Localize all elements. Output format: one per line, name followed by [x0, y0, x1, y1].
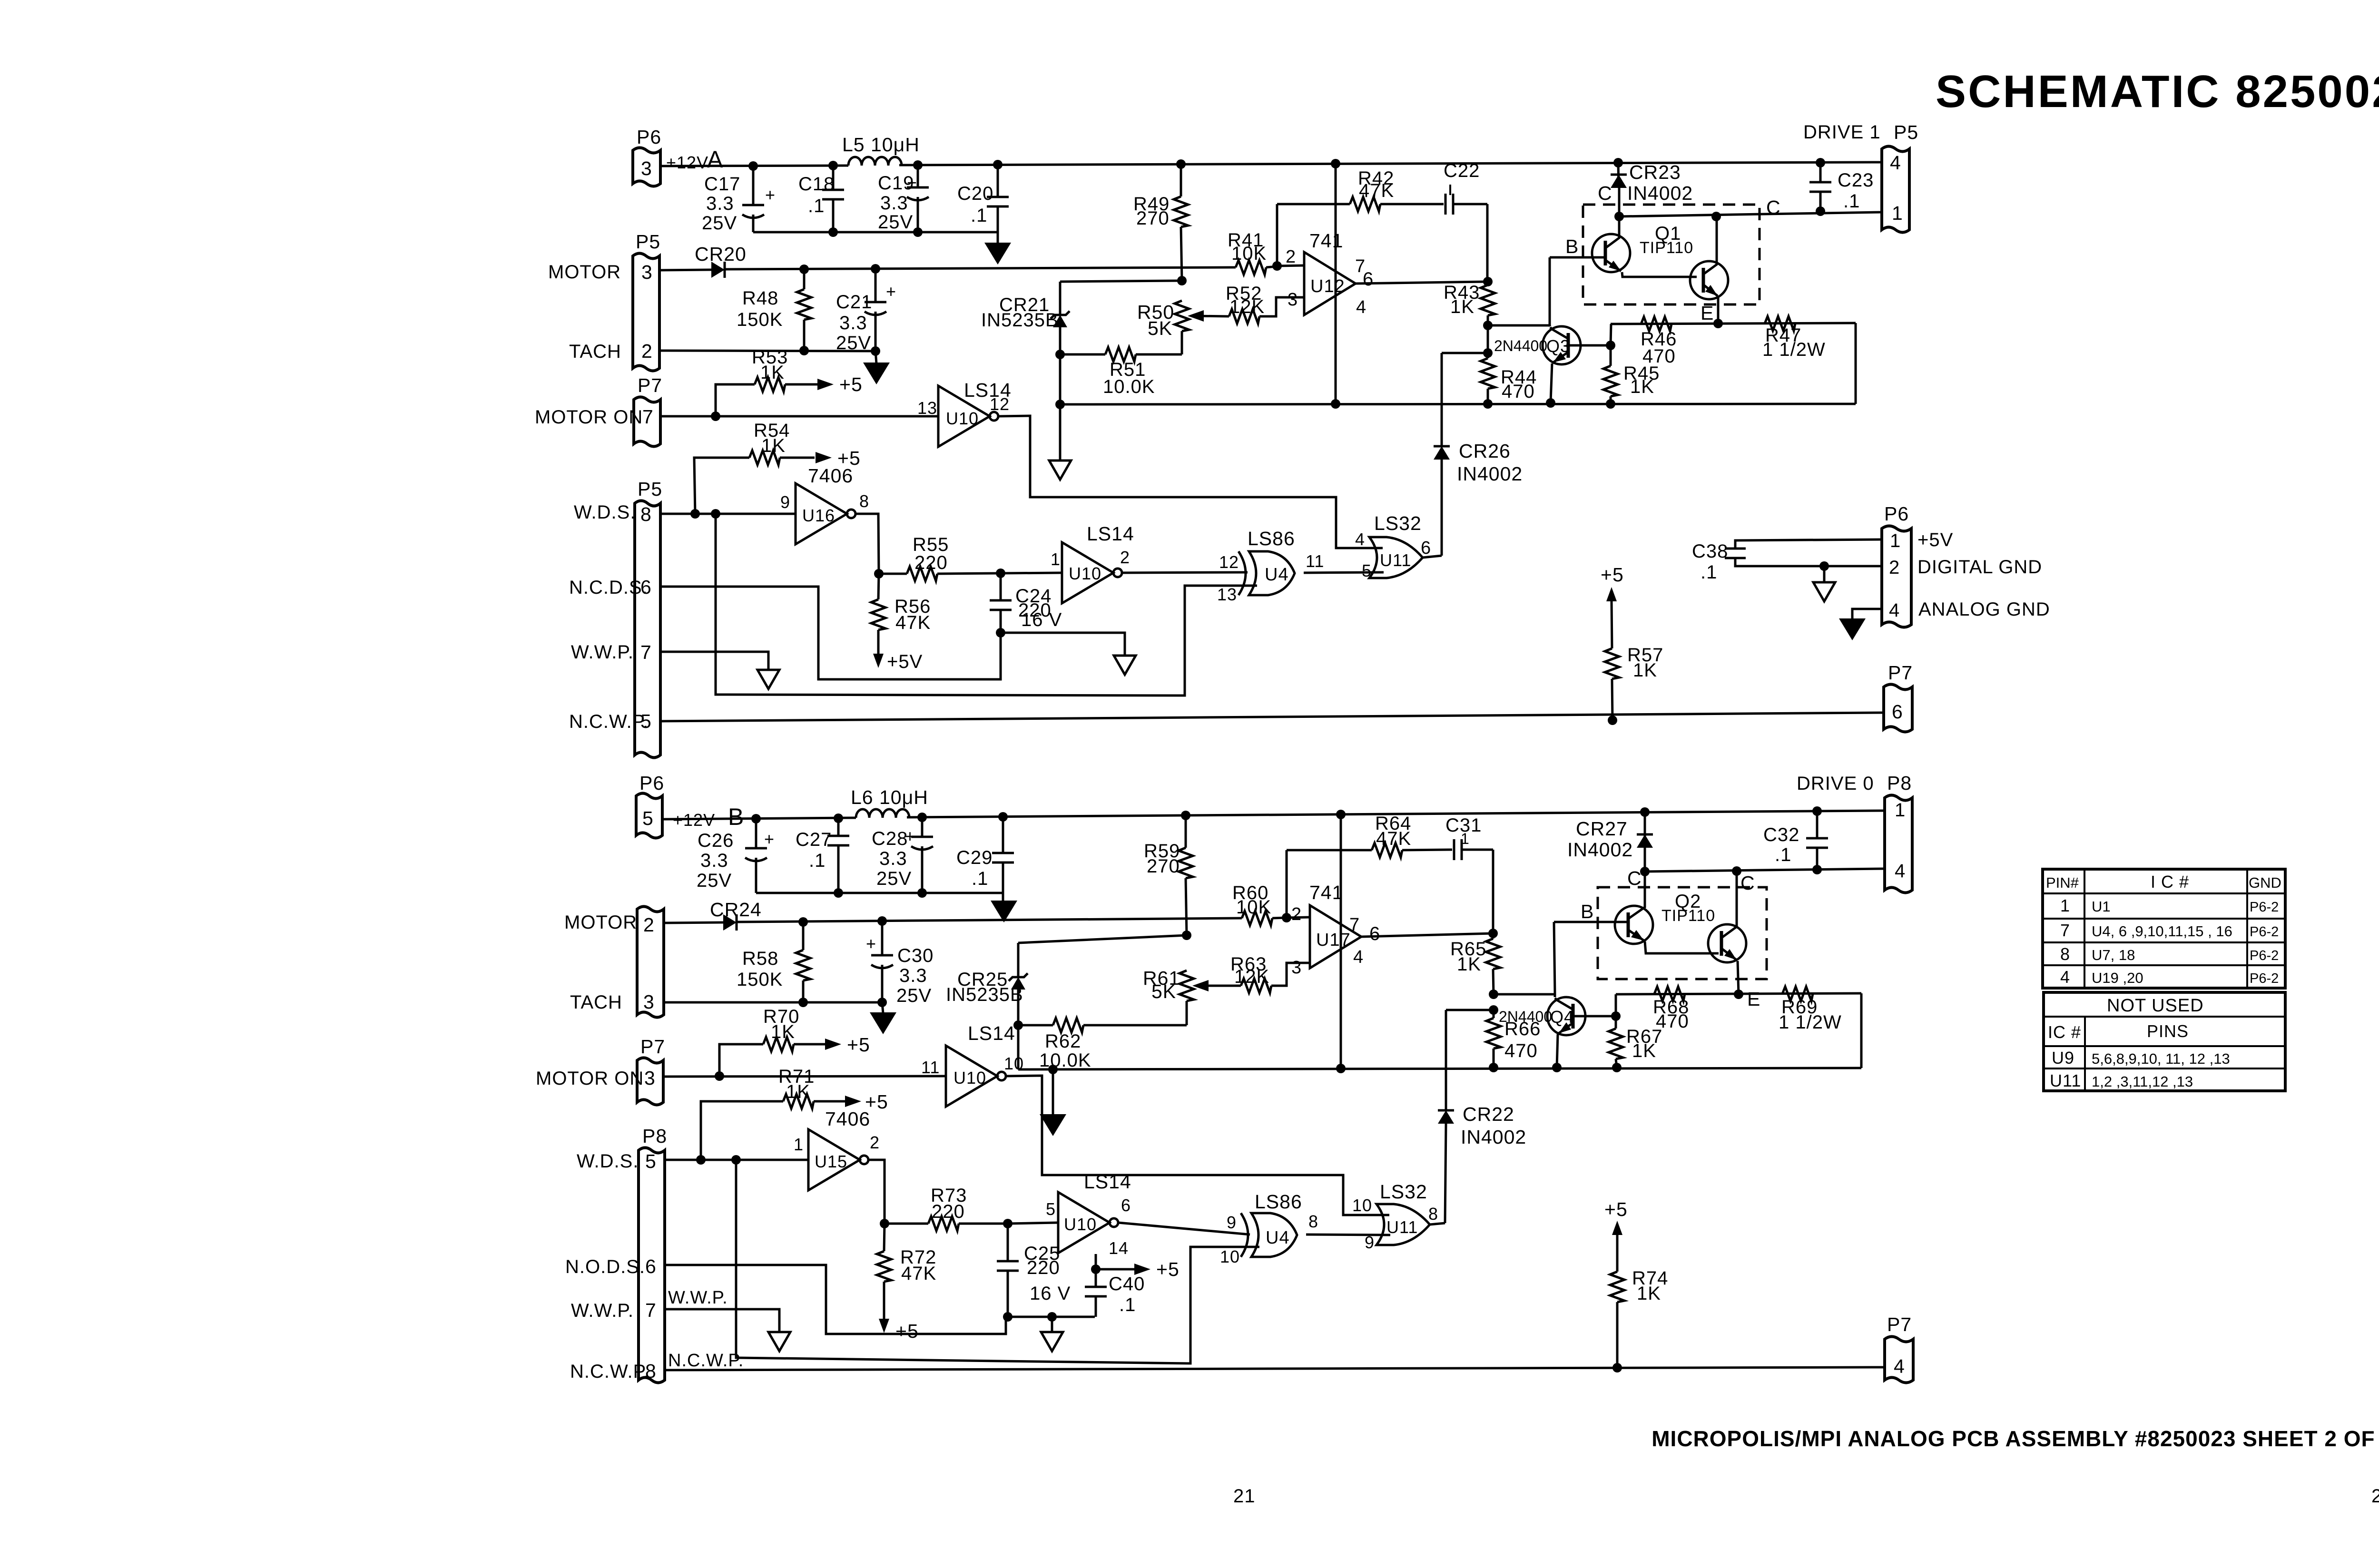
svg-text:U9: U9	[2052, 1048, 2074, 1068]
svg-text:P6: P6	[639, 772, 664, 794]
svg-text:P6-2: P6-2	[2250, 900, 2279, 915]
svg-text:47K: 47K	[895, 612, 931, 633]
svg-text:CR26: CR26	[1459, 440, 1511, 462]
svg-text:2N4400: 2N4400	[1499, 1008, 1552, 1025]
wire U11-6 output	[1423, 556, 1442, 558]
svg-text:N.O.D.S.: N.O.D.S.	[565, 1256, 645, 1277]
svg-text:C22: C22	[1444, 160, 1480, 181]
inverter U10 (LS14) pins 11-10	[921, 1022, 1024, 1107]
capacitor C23 .1	[1809, 163, 1874, 212]
capacitor C18 .1	[798, 166, 844, 232]
svg-text:3: 3	[1288, 290, 1298, 310]
svg-text:U19 ,20: U19 ,20	[2092, 970, 2143, 986]
ground (analog) below C21/TACH	[863, 351, 890, 384]
svg-text:1K: 1K	[1632, 1040, 1656, 1061]
transistor Q2b (TIP110 output)	[1708, 871, 1746, 994]
svg-text:NOT USED: NOT USED	[2107, 996, 2204, 1016]
svg-text:P6-2: P6-2	[2250, 924, 2279, 940]
wire R47 loop	[1855, 323, 1857, 404]
ground below W.W.P. (B)	[768, 1332, 790, 1351]
svg-text:5: 5	[1046, 1199, 1056, 1219]
svg-text:.1: .1	[808, 196, 825, 216]
svg-text:TACH: TACH	[570, 992, 622, 1013]
resistor R59 270	[1144, 815, 1193, 940]
svg-text:P7: P7	[640, 1036, 665, 1058]
resistor R56 47K to +5V	[871, 574, 931, 672]
ground below P6-2 (digital)	[1813, 561, 1835, 601]
svg-text:MOTOR: MOTOR	[564, 912, 637, 933]
ground below C24 row	[1114, 656, 1136, 675]
resistor R67 1K	[1609, 1016, 1662, 1072]
svg-text:7: 7	[640, 641, 652, 663]
svg-text:1K: 1K	[786, 1081, 810, 1102]
resistor R71 1K to +5	[701, 1066, 888, 1160]
zener CR21 1N5235B	[981, 282, 1070, 404]
svg-text:CR27: CR27	[1576, 818, 1628, 840]
wire U17 pin7/pin4 vertical	[1340, 814, 1342, 1068]
svg-text:3: 3	[1291, 958, 1302, 978]
svg-text:9: 9	[1227, 1213, 1237, 1232]
svg-text:L5 10μH: L5 10μH	[842, 134, 920, 156]
title SCHEMATIC 8250022	[1936, 66, 2379, 117]
svg-text:LS32: LS32	[1380, 1181, 1427, 1203]
svg-text:W.W.P.: W.W.P.	[571, 1300, 634, 1321]
wire MOTOR (A)	[659, 264, 1236, 274]
svg-text:PINS: PINS	[2147, 1021, 2189, 1041]
wire R68 left drop	[1615, 994, 1617, 1016]
svg-text:P6: P6	[1884, 503, 1909, 525]
wire MOTOR (B)	[664, 916, 1242, 927]
svg-text:U1: U1	[2092, 898, 2111, 915]
svg-text:1: 1	[1895, 800, 1906, 821]
wire R43 node to B riser	[1488, 257, 1550, 325]
resistor R58 150K	[737, 922, 810, 1007]
wire B to Q2 base	[1554, 921, 1624, 923]
svg-text:10.0K: 10.0K	[1103, 376, 1155, 397]
svg-text:TACH: TACH	[569, 341, 621, 362]
transistor Q3 2N4400	[1494, 325, 1615, 408]
svg-text:IN5235B: IN5235B	[946, 984, 1023, 1005]
wire R46 left drop	[1611, 324, 1611, 345]
svg-text:7: 7	[1349, 915, 1360, 935]
table pin/ic/gnd	[2043, 869, 2285, 988]
svg-text:U15: U15	[815, 1152, 847, 1171]
svg-text:.1: .1	[1701, 562, 1717, 583]
svg-text:IN4002: IN4002	[1461, 1126, 1526, 1148]
dashed outline Q2 package	[1598, 887, 1767, 979]
svg-text:MOTOR: MOTOR	[548, 262, 621, 283]
svg-text:W.W.P.: W.W.P.	[668, 1288, 728, 1308]
svg-text:470: 470	[1642, 346, 1676, 367]
inverter U10 (LS14) pins 5-6	[1046, 1171, 1131, 1258]
resistor R53 1K to +5	[716, 347, 863, 416]
resistor R73 220	[885, 1185, 1058, 1231]
svg-text:220: 220	[1027, 1257, 1060, 1278]
resistor R52 12K	[1226, 283, 1304, 323]
svg-text:P5: P5	[636, 231, 660, 253]
svg-text:N.C.W.P.: N.C.W.P.	[570, 1361, 649, 1382]
svg-text:+: +	[765, 185, 776, 205]
capacitor C28 3.3 25V	[872, 817, 933, 893]
svg-text:P6-2: P6-2	[2250, 948, 2279, 963]
resistor R45 1K	[1603, 345, 1660, 409]
svg-text:1K: 1K	[1637, 1283, 1661, 1304]
connector P5 pins 3,2 (MOTOR/TACH)	[548, 231, 660, 371]
svg-text:5,6,8,9,10, 11, 12 ,13: 5,6,8,9,10, 11, 12 ,13	[2092, 1050, 2230, 1067]
diode CR23 1N4002	[1611, 161, 1693, 216]
diode CR24	[710, 899, 762, 931]
wire CR21 top row	[1060, 281, 1182, 282]
svg-text:8: 8	[859, 491, 869, 511]
resistor R74 1K to +5	[1604, 1198, 1668, 1372]
node C label left (bottom)	[1627, 867, 1642, 889]
svg-text:47K: 47K	[1376, 828, 1411, 849]
wire W.D.S. (A)	[660, 509, 796, 519]
resistor R63 12K	[1230, 954, 1310, 993]
table not used	[2044, 992, 2285, 1091]
capacitor C25 220 16V	[997, 1224, 1071, 1322]
svg-text:4: 4	[1889, 600, 1900, 621]
svg-text:U11: U11	[2050, 1071, 2081, 1090]
svg-text:47K: 47K	[1359, 180, 1394, 201]
svg-text:10: 10	[1220, 1247, 1240, 1266]
capacitor C29 .1	[956, 817, 1014, 893]
svg-text:1,2 ,3,11,12 ,13: 1,2 ,3,11,12 ,13	[2092, 1073, 2193, 1090]
svg-text:B: B	[728, 804, 744, 830]
ground below C30/TACH	[870, 1002, 896, 1034]
svg-text:C26: C26	[698, 830, 734, 851]
svg-text:C28: C28	[872, 828, 908, 849]
diode CR27 1N4002	[1567, 812, 1653, 872]
ground (analog) below C20	[984, 232, 1011, 265]
svg-text:+5: +5	[847, 1034, 870, 1056]
connector P7 pin 7 (MOTOR ON)	[535, 374, 662, 447]
svg-text:7: 7	[2060, 921, 2070, 940]
resistor R66 470	[1486, 1010, 1541, 1072]
or gate U11 (LS32) pins 10,9-8	[1352, 1181, 1438, 1252]
zener CR25 1N5235B	[946, 943, 1028, 1069]
svg-text:12K: 12K	[1234, 966, 1269, 987]
svg-text:U12: U12	[1310, 276, 1345, 296]
wire R50 wiper to R52	[1193, 316, 1229, 316]
resistor R62 10.0K	[1018, 1018, 1187, 1071]
svg-text:3.3: 3.3	[706, 193, 734, 214]
svg-text:C17: C17	[704, 174, 740, 195]
inverter U15 (7406) pins 1-2	[794, 1108, 880, 1190]
transistor Q2a (TIP110 input)	[1615, 872, 1719, 953]
ground below CR21	[1049, 400, 1071, 480]
node B label	[1565, 235, 1579, 257]
svg-text:+5: +5	[1156, 1258, 1180, 1280]
svg-text:Q3: Q3	[1546, 336, 1570, 356]
svg-text:3.3: 3.3	[839, 313, 867, 333]
ground below W.W.P.	[757, 670, 779, 689]
xor gate U4 (LS86) pins 9,10-8	[1220, 1191, 1318, 1266]
footer text	[1652, 1426, 2379, 1451]
svg-text:ANALOG GND: ANALOG GND	[1918, 599, 2050, 620]
wire U10-10 to U11 pin 10	[1006, 1076, 1389, 1215]
svg-text:47K: 47K	[901, 1263, 936, 1284]
svg-text:3.3: 3.3	[700, 850, 728, 871]
wire TACH (A)	[659, 351, 875, 351]
wire C node row (bottom)	[1640, 865, 1885, 876]
node rail B junctions	[751, 806, 1822, 823]
page number left	[1233, 1486, 1256, 1507]
svg-text:+12V: +12V	[666, 153, 708, 172]
svg-text:14: 14	[1109, 1238, 1129, 1258]
potentiometer R50 5K	[1137, 301, 1204, 354]
svg-text:25V: 25V	[702, 213, 737, 234]
svg-text:P5: P5	[1894, 121, 1918, 143]
svg-text:C21: C21	[836, 292, 872, 313]
svg-text:P7: P7	[1887, 1313, 1912, 1335]
svg-text:+5: +5	[895, 1320, 919, 1342]
inverter U10 (LS14) pins 1-2	[1051, 523, 1134, 603]
svg-text:B: B	[1581, 901, 1594, 922]
svg-text:2: 2	[1291, 904, 1302, 924]
capacitor C32 .1	[1763, 811, 1828, 870]
svg-text:5: 5	[1362, 561, 1372, 580]
resistor R69 1 1/2W	[1779, 987, 1842, 1033]
svg-text:1: 1	[1051, 549, 1061, 569]
wire R65 node to B riser	[1494, 922, 1555, 994]
svg-text:P5: P5	[638, 478, 662, 500]
svg-text:TIP110: TIP110	[1640, 239, 1693, 257]
capacitor C20 .1	[957, 165, 1009, 232]
wire C node row	[1614, 206, 1882, 221]
svg-text:3: 3	[644, 1067, 656, 1089]
svg-text:1 1/2W: 1 1/2W	[1762, 339, 1826, 360]
wire U11-8 output	[1430, 1223, 1445, 1225]
wire U15 out to R73 node	[868, 1160, 889, 1228]
svg-text:W.W.P.: W.W.P.	[571, 642, 634, 663]
wire N.O.D.S. (B)	[665, 1265, 1006, 1334]
svg-text:25V: 25V	[896, 985, 932, 1006]
resistor R54 1K to +5	[694, 420, 861, 514]
svg-text:P8: P8	[1887, 772, 1912, 794]
dashed outline Q1 package	[1583, 205, 1760, 304]
svg-text:3: 3	[643, 991, 655, 1013]
wire U10-2 to U4-12	[1122, 572, 1248, 573]
svg-text:11: 11	[921, 1058, 940, 1077]
label Q2 TIP110	[1661, 891, 1715, 925]
capacitor C17 3.3 25V	[702, 166, 776, 234]
op-amp U12 (741)	[1286, 230, 1374, 317]
svg-text:13: 13	[917, 398, 937, 418]
svg-text:+5V: +5V	[887, 651, 923, 672]
svg-text:.1: .1	[1119, 1294, 1136, 1315]
svg-text:1K: 1K	[1450, 296, 1475, 317]
diode CR26 1N4002	[1434, 353, 1523, 556]
page number right	[2371, 1486, 2379, 1507]
svg-text:LS14: LS14	[968, 1022, 1015, 1044]
svg-text:IC #: IC #	[2048, 1022, 2081, 1042]
svg-text:U10: U10	[1064, 1215, 1097, 1234]
svg-text:5: 5	[642, 807, 654, 829]
svg-text:3.3: 3.3	[879, 848, 907, 869]
svg-text:+5: +5	[1604, 1198, 1628, 1220]
wire N.C.W.P. (B) to P7-4	[665, 1351, 1885, 1371]
svg-text:2: 2	[870, 1133, 880, 1152]
svg-text:270: 270	[1136, 208, 1170, 229]
wire W.W.P. (B) to ground	[665, 1288, 779, 1332]
svg-text:1K: 1K	[760, 362, 785, 383]
resistor R48 150K	[737, 269, 811, 355]
svg-text:LS14: LS14	[1087, 523, 1134, 545]
svg-text:.1: .1	[809, 850, 826, 871]
wire U10 pin14 to C40/+5	[1091, 1254, 1180, 1280]
svg-text:A: A	[707, 146, 723, 173]
svg-text:CR20: CR20	[695, 243, 747, 265]
svg-text:3.3: 3.3	[899, 965, 927, 986]
wire P6-4 to analog ground	[1839, 609, 1882, 640]
svg-text:8: 8	[640, 503, 652, 525]
potentiometer R61 5K	[1143, 967, 1209, 1025]
svg-text:C30: C30	[897, 945, 934, 966]
svg-text:6: 6	[1369, 923, 1380, 944]
resistor R70 1K to +5	[719, 1006, 870, 1076]
svg-text:PIN#: PIN#	[2046, 874, 2079, 891]
wire cap bank bus (top)	[753, 227, 998, 237]
svg-text:470: 470	[1504, 1040, 1538, 1061]
connector P8 pins 2,3 (MOTOR/TACH)	[564, 907, 664, 1018]
svg-text:150K: 150K	[737, 309, 783, 330]
svg-text:150K: 150K	[737, 969, 783, 990]
connector P7 pin 4 (bottom)	[1885, 1313, 1913, 1383]
svg-text:P6: P6	[637, 126, 661, 148]
svg-text:4: 4	[2060, 967, 2070, 987]
inductor L5 10uH	[842, 134, 920, 166]
connector P7 pin 3 (MOTOR ON)	[536, 1036, 665, 1105]
svg-text:P7: P7	[1888, 662, 1913, 684]
node E label (bottom)	[1747, 988, 1760, 1010]
svg-text:8: 8	[1428, 1204, 1438, 1224]
wire +12V B rail	[662, 811, 1885, 819]
capacitor C30 3.3 25V	[866, 921, 934, 1007]
svg-text:C27: C27	[796, 829, 832, 850]
svg-text:IN5235B: IN5235B	[981, 310, 1059, 331]
svg-text:IN4002: IN4002	[1457, 463, 1523, 485]
svg-text:C40: C40	[1109, 1274, 1145, 1294]
svg-text:GND: GND	[2249, 874, 2281, 891]
svg-text:C23: C23	[1838, 170, 1874, 191]
svg-text:1: 1	[1890, 530, 1901, 551]
svg-text:TIP110: TIP110	[1661, 907, 1715, 925]
resistor R41 10K	[1228, 230, 1304, 274]
svg-text:4: 4	[1895, 861, 1906, 882]
svg-text:N.C.W.P.: N.C.W.P.	[569, 711, 649, 732]
svg-text:1: 1	[794, 1135, 804, 1154]
svg-text:25V: 25V	[878, 212, 913, 233]
svg-text:3.3: 3.3	[880, 193, 908, 214]
xor gate U4 (LS86) pins 12,13-11	[1217, 528, 1324, 604]
svg-text:C: C	[1627, 867, 1642, 889]
connector P6 pin 3 (+12V A)	[633, 126, 723, 186]
wire CR22 to R65/R66 node	[1446, 1005, 1498, 1015]
svg-text:CR22: CR22	[1463, 1103, 1514, 1125]
svg-text:16 V: 16 V	[1030, 1283, 1071, 1304]
svg-text:C18: C18	[798, 174, 835, 195]
svg-text:2: 2	[1889, 557, 1900, 578]
wire B to Q1 base	[1550, 256, 1602, 259]
svg-text:.1: .1	[972, 868, 988, 889]
svg-text:U10: U10	[1069, 564, 1101, 583]
svg-text:U16: U16	[802, 506, 835, 525]
label Q1 TIP110	[1640, 223, 1693, 257]
wire U10-6 to U4-9	[1118, 1223, 1250, 1235]
transistor Q1a (TIP110 input)	[1592, 216, 1697, 277]
wire E row (R68/R69)	[1616, 990, 1861, 999]
svg-text:6: 6	[1121, 1196, 1131, 1215]
svg-text:1K: 1K	[1633, 660, 1657, 681]
diode CR22 1N4002	[1438, 1010, 1526, 1223]
wire R69 loop	[1860, 993, 1863, 1068]
svg-text:DRIVE 0: DRIVE 0	[1797, 773, 1874, 794]
ground below C29	[991, 893, 1017, 922]
wire U17 feedback to R64	[1286, 850, 1288, 918]
svg-text:N.C.D.S.: N.C.D.S.	[569, 577, 648, 598]
resistor R72 47K to +5	[877, 1224, 936, 1342]
svg-text:3: 3	[641, 157, 652, 179]
connector P5 pins 4,1 (DRIVE 1)	[1803, 121, 1918, 233]
wire bottom rail (B)	[1018, 1064, 1861, 1073]
svg-text:LS32: LS32	[1374, 512, 1422, 534]
node C label right (bottom)	[1740, 872, 1755, 894]
wire U16 out to R55 node	[855, 514, 884, 578]
svg-text:1: 1	[2060, 896, 2070, 915]
svg-text:+5V: +5V	[1917, 529, 1953, 550]
node C label right	[1766, 196, 1781, 218]
svg-text:W.D.S.: W.D.S.	[577, 1151, 639, 1172]
wire C25 bottom row to C40	[1008, 1312, 1095, 1322]
connector P6 pin 5 (+12V B)	[636, 772, 744, 838]
node E label	[1701, 302, 1714, 324]
wire W.W.P. (A) to ground	[660, 652, 768, 670]
wire U12 pin7/pin4 vertical	[1335, 164, 1337, 404]
svg-text:P6-2: P6-2	[2250, 971, 2279, 986]
svg-text:MOTOR ON: MOTOR ON	[535, 407, 643, 428]
capacitor C21 3.3 25V	[836, 269, 896, 356]
svg-text:IN4002: IN4002	[1627, 182, 1693, 204]
svg-text:741: 741	[1309, 230, 1343, 252]
svg-text:8: 8	[2060, 944, 2070, 964]
svg-text:MICROPOLIS/MPI ANALOG PCB ASSE: MICROPOLIS/MPI ANALOG PCB ASSEMBLY #8250…	[1652, 1426, 2379, 1451]
svg-text:2N4400: 2N4400	[1494, 337, 1547, 354]
svg-text:R58: R58	[742, 948, 778, 969]
capacitor C31 1	[1445, 815, 1493, 933]
svg-text:U11: U11	[1386, 1217, 1418, 1237]
resistor R68 470	[1653, 987, 1689, 1032]
ground below CR25 (analog)	[1040, 1065, 1066, 1136]
svg-text:10K: 10K	[1236, 897, 1271, 918]
transistor Q4 2N4400	[1499, 994, 1621, 1072]
svg-text:6: 6	[1892, 701, 1903, 723]
svg-text:12K: 12K	[1229, 296, 1265, 317]
svg-text:LS86: LS86	[1248, 528, 1295, 549]
connector P8 pins 5,6,7,8 (W.D.S./N.O.D.S./W.W.P./N.C.W.P.)	[565, 1125, 667, 1383]
node B label (bottom)	[1581, 901, 1594, 922]
svg-text:470: 470	[1656, 1011, 1689, 1032]
svg-text:Q4: Q4	[1550, 1007, 1574, 1027]
svg-text:13: 13	[1217, 585, 1237, 604]
diode CR20	[695, 243, 747, 278]
wire U12 feedback to R42	[1276, 204, 1278, 266]
wire U4-8 to U11-9	[1306, 1235, 1390, 1235]
wire U10-12 to U11 pin 4	[998, 416, 1383, 548]
svg-text:.1: .1	[1775, 844, 1791, 865]
or gate U11 (LS32) pins 4,5-6	[1355, 512, 1431, 580]
capacitor C22	[1444, 160, 1487, 282]
